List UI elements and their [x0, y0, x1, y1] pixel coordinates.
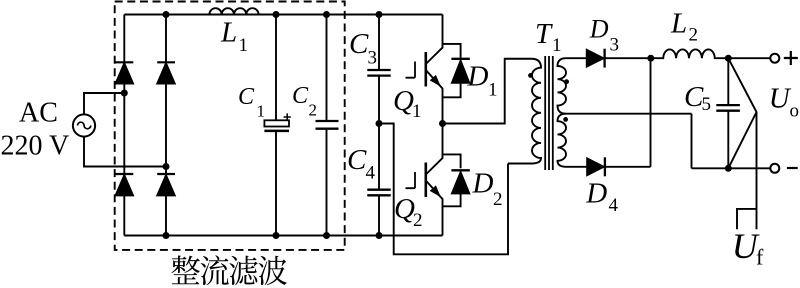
- transformer T1 secondary bottom winding: [558, 114, 588, 167]
- svg-text:D: D: [589, 15, 609, 44]
- diode bridge upper-left: [116, 62, 134, 83]
- node L2 output / C5 / + terminal: [725, 55, 732, 62]
- node AC- / bridge right leg: [163, 163, 170, 170]
- diode D4: [587, 157, 651, 176]
- node top rail / C2: [323, 11, 330, 18]
- capacitor C1 electrolytic: [264, 15, 290, 236]
- svg-text:2: 2: [689, 25, 699, 46]
- svg-text:2: 2: [413, 210, 423, 231]
- diode D3: [587, 49, 651, 68]
- svg-text:4: 4: [609, 195, 619, 216]
- node bottom rail / C2: [323, 232, 330, 239]
- diode bridge lower-right: [157, 174, 175, 195]
- svg-text:2: 2: [493, 189, 503, 210]
- transformer T1 primary winding: [508, 59, 541, 164]
- diode D1: [443, 44, 470, 97]
- svg-text:D: D: [472, 168, 494, 200]
- capacitor C4: [367, 124, 390, 236]
- wire C3/C4 midpoint to transformer primary bottom: [379, 124, 508, 255]
- node bottom rail / bridge right leg: [163, 232, 170, 239]
- wire bottom output: [692, 167, 771, 169]
- svg-text:3: 3: [610, 34, 620, 55]
- svg-text:3: 3: [368, 48, 378, 69]
- T1 polarity dot primary: [528, 73, 533, 78]
- dashed box rectifier-filter: [115, 2, 345, 250]
- node bottom rail / C1: [273, 232, 280, 239]
- T1 polarity dot secondary top: [564, 79, 569, 84]
- svg-text:1: 1: [257, 102, 266, 121]
- svg-text:C: C: [347, 144, 367, 176]
- node C3/C4 midpoint: [376, 120, 383, 127]
- capacitor C5: [716, 58, 740, 168]
- wire bottom rail: [124, 235, 442, 237]
- svg-text:C: C: [292, 83, 309, 109]
- plus sign: [784, 51, 798, 65]
- svg-text:Q: Q: [394, 193, 415, 225]
- svg-text:L: L: [220, 17, 237, 49]
- diode D2: [443, 154, 470, 206]
- capacitor C3: [367, 15, 390, 124]
- svg-text:220 V: 220 V: [1, 131, 70, 162]
- transistor Q2: [406, 124, 443, 236]
- node top rail / C3: [376, 11, 383, 18]
- svg-text:1: 1: [488, 80, 498, 101]
- Uf port bracket: [737, 209, 757, 229]
- svg-text:1: 1: [239, 35, 249, 56]
- svg-text:T: T: [535, 18, 553, 50]
- wire center tap return: [691, 114, 693, 169]
- svg-text:AC: AC: [19, 98, 58, 129]
- wire half-bridge midpoint to primary top: [443, 59, 532, 124]
- svg-text:1: 1: [412, 101, 422, 122]
- svg-text:o: o: [790, 101, 800, 122]
- svg-text:C: C: [238, 84, 255, 110]
- transistor Q1: [406, 15, 443, 124]
- svg-text:1: 1: [552, 35, 562, 56]
- svg-text:D: D: [467, 61, 489, 93]
- wire bridge left column: [123, 15, 125, 236]
- wire D4 cathode up to D3 node: [650, 58, 652, 167]
- svg-text:C: C: [349, 28, 369, 60]
- wire sense tap down: [756, 112, 758, 229]
- svg-text:U: U: [769, 82, 792, 114]
- terminal - circle: [770, 164, 779, 173]
- svg-text:Q: Q: [393, 85, 414, 117]
- T1 polarity dot secondary mid: [563, 117, 568, 122]
- transformer T1 secondary top winding: [558, 58, 692, 113]
- terminal + circle: [770, 54, 779, 63]
- transformer T1 core: [545, 56, 553, 170]
- node top rail / bridge right leg: [163, 11, 170, 18]
- svg-text:f: f: [756, 245, 764, 270]
- AC source V1: [73, 114, 95, 136]
- node C5 / - terminal: [725, 165, 732, 172]
- node half-bridge midpoint Q1/Q2: [439, 120, 446, 127]
- svg-text:2: 2: [309, 100, 318, 119]
- svg-text:D: D: [585, 177, 607, 209]
- minus sign: [787, 167, 798, 169]
- inductor L1: [209, 8, 258, 14]
- capacitor C2: [316, 15, 339, 236]
- svg-text:5: 5: [702, 94, 712, 115]
- label 整流滤波: [171, 255, 287, 285]
- svg-text:L: L: [670, 8, 687, 40]
- node D3/D4 cathodes / L2 input: [647, 55, 654, 62]
- node AC+ / bridge left leg: [121, 90, 128, 97]
- diode bridge upper-right: [157, 62, 175, 83]
- wire top rail: [124, 14, 442, 16]
- wire bridge right column: [165, 15, 167, 236]
- svg-text:4: 4: [366, 163, 376, 184]
- inductor L2: [651, 49, 770, 58]
- wire AC to bridge top: [84, 93, 124, 114]
- sense divider diagonals: [728, 58, 756, 168]
- node bottom rail / C4: [376, 232, 383, 239]
- node top rail / C1: [273, 11, 280, 18]
- wire AC to bridge bottom: [84, 137, 166, 167]
- diode bridge lower-left: [116, 174, 134, 195]
